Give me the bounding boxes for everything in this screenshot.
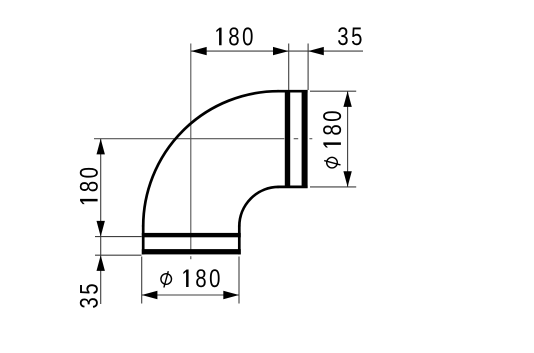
label text 180 right (rotated) <box>323 111 341 147</box>
arrow 180 top left <box>191 47 207 55</box>
gasket band bottom 1 <box>142 233 241 237</box>
dimension 180 left line and extensions <box>95 139 142 304</box>
arrow 180 top right <box>273 47 289 55</box>
wire right edge of bottom opening <box>238 226 241 255</box>
arrow D180 right down <box>343 171 351 187</box>
wire left outer edge of bottom opening <box>142 226 145 255</box>
label text 180 top <box>216 27 252 45</box>
label text 180 bottom <box>183 269 219 287</box>
label text 180 left (rotated) <box>80 168 98 204</box>
wire top edge of right opening <box>278 90 308 93</box>
arrow 180 left up <box>97 139 105 155</box>
wire bottom edge of right opening <box>278 186 308 189</box>
node vertical centerline of bottom opening <box>190 44 192 260</box>
arrow 35 top right <box>308 47 324 55</box>
symbol diameter bottom <box>161 271 172 287</box>
wire inner arc of elbow <box>239 187 278 227</box>
label text 35 top <box>338 27 362 45</box>
gasket band right 2 <box>302 90 308 188</box>
arrow D180 right up <box>343 91 351 107</box>
dimension D180 bottom extensions and line <box>142 257 239 304</box>
dimension D180 right extensions and line <box>310 91 356 187</box>
arrow D180 bottom left <box>142 291 158 299</box>
arrow D180 bottom right <box>223 291 239 299</box>
dimension 180 top extension and line <box>191 44 363 91</box>
wire outer arc of elbow <box>143 91 278 226</box>
symbol diameter right <box>324 157 340 168</box>
arrow 180 left down <box>97 221 105 237</box>
node horizontal centerline of right opening <box>94 138 312 140</box>
arrow 35 left bottom <box>97 255 105 271</box>
gasket band right 1 <box>285 90 290 188</box>
gasket band bottom 2 <box>142 249 241 254</box>
label text 35 bottom-left (rotated) <box>80 284 98 308</box>
